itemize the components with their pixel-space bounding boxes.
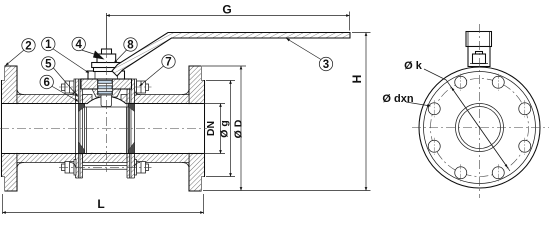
svg-text:4: 4 xyxy=(75,39,82,51)
svg-text:Ø dxn: Ø dxn xyxy=(382,93,413,105)
svg-text:G: G xyxy=(222,3,231,17)
svg-text:L: L xyxy=(97,197,104,211)
svg-text:Ø g: Ø g xyxy=(219,120,231,138)
svg-text:1: 1 xyxy=(45,39,52,51)
svg-text:DN: DN xyxy=(205,121,217,136)
svg-text:Ø k: Ø k xyxy=(404,60,423,72)
svg-text:H: H xyxy=(350,75,364,84)
svg-text:Ø D: Ø D xyxy=(233,119,245,138)
svg-text:3: 3 xyxy=(323,59,329,71)
svg-text:6: 6 xyxy=(43,77,49,89)
svg-text:2: 2 xyxy=(25,40,31,52)
svg-text:8: 8 xyxy=(127,40,134,52)
svg-text:5: 5 xyxy=(45,59,52,71)
svg-text:7: 7 xyxy=(165,57,171,69)
